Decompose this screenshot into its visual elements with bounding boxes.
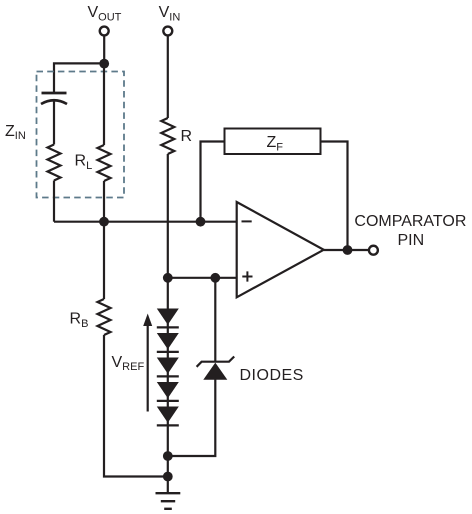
terminal VOUT <box>100 27 109 36</box>
diode D1 <box>157 309 179 328</box>
diode D2 <box>157 333 179 352</box>
node zener branch top <box>210 273 220 283</box>
svg-text:RB: RB <box>70 311 89 330</box>
zener diode DZ <box>168 278 234 456</box>
wire diode chain <box>167 278 169 493</box>
wire noninverting-input row <box>168 277 237 279</box>
wire VIN down to resistor R <box>167 36 169 118</box>
op-amp U1 (comparator) <box>237 202 324 297</box>
wire RL top <box>103 63 105 145</box>
svg-text:VOUT: VOUT <box>88 4 122 23</box>
wire RB bottom to ground row <box>104 335 168 477</box>
resistor (ZIN branch) <box>48 145 61 181</box>
impedance box ZIN (dashed) <box>37 72 125 198</box>
svg-text:R: R <box>181 128 193 145</box>
terminal VIN <box>163 27 172 36</box>
wire RB top <box>103 222 105 299</box>
wire ZF right to output node <box>321 142 348 251</box>
wire ZF left to inverting node <box>201 142 225 222</box>
node diode chain top <box>163 273 173 283</box>
svg-text:VREF: VREF <box>112 354 145 373</box>
wire top of ZIN branch <box>54 63 104 92</box>
capacitor C (in ZIN) <box>41 93 67 104</box>
wire inverting-input row <box>54 221 237 223</box>
wire R bottom to noninverting row <box>167 154 169 278</box>
label COMPARATOR PIN <box>354 213 466 249</box>
node ground junction <box>163 472 173 482</box>
node VOUT junction <box>99 59 109 69</box>
svg-text:DIODES: DIODES <box>240 367 304 384</box>
node RL/RB junction <box>99 217 109 227</box>
svg-text:COMPARATOR: COMPARATOR <box>354 213 466 230</box>
resistor R <box>161 118 174 154</box>
wire capacitor to resistor <box>53 101 55 145</box>
wire op-amp output <box>324 249 369 251</box>
node ZF/inverting junction <box>196 217 206 227</box>
ground <box>156 493 181 509</box>
wire ZIN branch bottom <box>53 181 55 222</box>
svg-text:RL: RL <box>75 153 93 172</box>
node output junction <box>343 245 353 255</box>
resistor RB <box>98 299 111 335</box>
VREF arrow <box>143 314 152 412</box>
terminal COMPARATOR PIN <box>369 246 378 255</box>
wire RL bottom <box>103 181 105 222</box>
feedback impedance ZF box <box>225 129 321 155</box>
resistor RL <box>98 145 111 181</box>
node diode/zener bottom junction <box>163 451 173 461</box>
svg-text:VIN: VIN <box>159 4 181 23</box>
svg-text:PIN: PIN <box>397 232 424 249</box>
diode D3 <box>157 358 179 377</box>
diode D5 <box>157 407 179 426</box>
svg-text:ZIN: ZIN <box>5 123 26 142</box>
wire VOUT down <box>103 36 105 64</box>
diode D4 <box>157 382 179 401</box>
